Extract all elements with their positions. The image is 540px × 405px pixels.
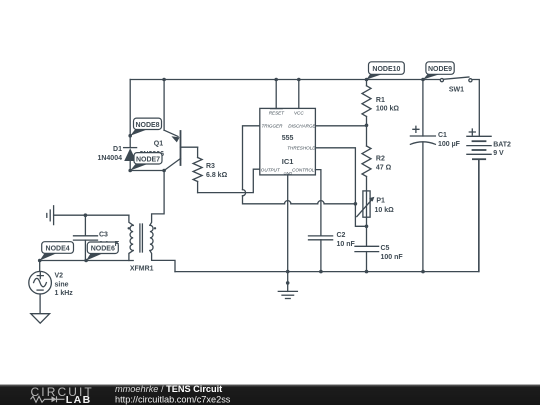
svg-text:100 µF: 100 µF	[438, 141, 461, 148]
footer author / title	[115, 384, 222, 394]
svg-text:R2: R2	[376, 156, 385, 163]
value 6.8 kohm	[206, 172, 228, 179]
label BAT2	[493, 142, 511, 149]
label C3	[99, 231, 108, 238]
svg-text:RESET: RESET	[269, 110, 286, 115]
label V2	[55, 273, 64, 280]
wire DISCHARGE to R1/R2 junction	[315, 125, 366, 127]
wire left branch down to D1	[129, 80, 131, 136]
node flag NODE9	[423, 62, 454, 80]
value 9 V	[493, 150, 504, 157]
wire THRESHOLD down to pot wiper net	[315, 148, 355, 204]
svg-text:NODE9: NODE9	[428, 66, 452, 73]
label C1	[438, 132, 447, 139]
label IC1	[282, 157, 294, 166]
svg-text:100 nF: 100 nF	[381, 254, 404, 261]
wire R3 bottom to OUTPUT	[198, 169, 260, 192]
transistor Q1	[164, 130, 198, 170]
svg-text:BAT2: BAT2	[493, 142, 511, 149]
svg-text:9 V: 9 V	[493, 150, 504, 157]
node junction NODE10 anchor	[365, 78, 369, 82]
footer logo LAB	[66, 394, 92, 405]
value C3 unit fragment F	[115, 241, 120, 248]
svg-text:TRIGGER: TRIGGER	[262, 124, 284, 129]
svg-text:100 kΩ: 100 kΩ	[376, 105, 400, 112]
switch SW1	[440, 77, 472, 82]
value sine	[55, 282, 69, 289]
resistor R1	[362, 80, 371, 126]
node junction Q1 collector	[162, 169, 166, 173]
node junction ground symbol stem	[286, 281, 290, 285]
svg-text:NODE6: NODE6	[91, 246, 115, 253]
value 0.1 uF (mostly hidden behind NODE6 flag)	[99, 241, 120, 248]
node junction C3 top	[84, 213, 88, 217]
node junction NODE6 anchor	[84, 259, 88, 263]
svg-text:VCC: VCC	[294, 110, 304, 115]
node flag NODE10	[367, 62, 405, 80]
svg-text:V2: V2	[55, 273, 64, 280]
label SW1	[449, 87, 464, 94]
capacitor C5	[355, 226, 379, 271]
label CONTROL pin	[292, 167, 315, 172]
value 2N3906 (hidden behind NODE7 flag)	[140, 151, 165, 158]
transformer XFMR1	[128, 171, 176, 272]
node junction top rail at Q1 emitter	[162, 78, 166, 82]
svg-text:XFMR1: XFMR1	[130, 265, 154, 272]
op-amp/IC U1 555 timer box	[260, 108, 316, 174]
label C5	[381, 245, 390, 252]
svg-text:F: F	[115, 241, 120, 248]
wire wiper net down to pot bottom	[355, 204, 366, 227]
node junction R1/R2/discharge	[365, 124, 369, 128]
node junction pot bottom	[365, 225, 369, 229]
node junction rail GND pin	[286, 270, 290, 274]
value 1N4004	[97, 155, 122, 162]
svg-text:1 kHz: 1 kHz	[55, 290, 74, 297]
wire V2 to XFMR primary bottom	[40, 260, 134, 262]
wire CONTROL down to C2	[315, 170, 321, 236]
label D1	[113, 146, 122, 153]
ground earth symbol bottom center	[278, 283, 297, 299]
node junction NODE4 anchor / V2 top	[38, 259, 42, 263]
node flag NODE8	[130, 118, 161, 136]
svg-text:OUTPUT: OUTPUT	[261, 167, 281, 172]
footer logo CIRCUIT	[31, 385, 94, 399]
wire top-left ground to XFMR primary top	[54, 214, 129, 216]
label VCC	[294, 110, 304, 115]
footer url	[115, 394, 231, 404]
capacitor C2	[309, 236, 333, 272]
source V2 sine	[29, 261, 52, 314]
node junction NODE9 anchor	[421, 78, 425, 82]
resistor R3	[193, 147, 202, 192]
value 100 kohm	[376, 105, 400, 112]
ground earth symbol top left (rotated)	[47, 206, 54, 225]
capacitor C1 polarized	[410, 80, 435, 272]
svg-text:47 Ω: 47 Ω	[376, 165, 392, 172]
label XFMR1	[130, 265, 154, 272]
svg-text:1N4004: 1N4004	[97, 155, 122, 162]
svg-text:NODE10: NODE10	[372, 66, 400, 73]
node junction top rail RESET pin	[274, 78, 278, 82]
label DISCHARGE pin	[288, 124, 316, 129]
node flag NODE4	[40, 242, 74, 261]
pin VCC	[298, 80, 300, 109]
label GND pin	[284, 170, 293, 175]
diode D1	[124, 136, 137, 171]
footer bar	[0, 385, 540, 405]
label Q1	[154, 141, 163, 148]
label TRIGGER pin	[262, 124, 284, 129]
svg-text:NODE4: NODE4	[46, 246, 70, 253]
node junction top rail VCC pin	[297, 78, 301, 82]
svg-text:555: 555	[282, 135, 294, 142]
label OUTPUT pin	[261, 167, 281, 172]
svg-text:R1: R1	[376, 97, 385, 104]
label 555	[282, 135, 294, 142]
svg-text:C3: C3	[99, 231, 108, 238]
node junction D1 bottom / NODE7 anchor	[128, 169, 132, 173]
svg-text:mmoehrke / TENS Circuit: mmoehrke / TENS Circuit	[115, 384, 222, 394]
svg-text:C1: C1	[438, 132, 447, 139]
svg-text:NODE7: NODE7	[136, 156, 160, 163]
value 47 ohm	[376, 165, 392, 172]
node flag NODE7	[130, 153, 162, 171]
svg-text:6.8 kΩ: 6.8 kΩ	[206, 172, 228, 179]
node junction D1 top / NODE8 anchor	[128, 134, 132, 138]
node junction rail C1	[421, 270, 425, 274]
resistor R2	[362, 125, 371, 191]
svg-text:P1: P1	[376, 198, 385, 205]
value 100 uF	[438, 141, 461, 148]
label P1	[376, 198, 385, 205]
svg-text:Q1: Q1	[154, 141, 163, 148]
value 1 kHz	[55, 290, 74, 297]
value 100 nF	[381, 254, 404, 261]
wire TRIGGER net with hop over output wire	[243, 126, 356, 204]
ground chassis symbol under V2	[31, 314, 50, 324]
svg-text:D1: D1	[113, 146, 122, 153]
pin RESET	[275, 80, 277, 109]
svg-text:DISCHARGE: DISCHARGE	[288, 124, 316, 129]
wire Q1 emitter vertical	[163, 80, 165, 131]
svg-text:CONTROL: CONTROL	[292, 167, 315, 172]
wire top rail	[130, 80, 479, 137]
svg-text:sine: sine	[55, 282, 69, 289]
potentiometer P1	[357, 191, 375, 226]
label C2	[337, 232, 346, 239]
node flag NODE6	[86, 242, 118, 261]
svg-text:10 nF: 10 nF	[337, 241, 356, 248]
svg-text:LAB: LAB	[66, 394, 92, 405]
footer logo squiggle and diode	[31, 396, 65, 402]
svg-text:SW1: SW1	[449, 87, 464, 94]
label R2	[376, 156, 385, 163]
value 10 nF	[337, 241, 356, 248]
svg-text:NODE8: NODE8	[135, 122, 159, 129]
capacitor C3	[74, 215, 98, 260]
svg-text:10 kΩ: 10 kΩ	[375, 207, 395, 214]
svg-text:R3: R3	[206, 163, 215, 170]
node junction rail C5	[365, 270, 369, 274]
battery BAT2	[467, 129, 491, 272]
svg-text:IC1: IC1	[282, 157, 294, 166]
label R3	[206, 163, 215, 170]
svg-text:http://circuitlab.com/c7xe2ss: http://circuitlab.com/c7xe2ss	[115, 394, 231, 404]
wire bottom ground rail	[175, 159, 479, 271]
node junction rail C2	[319, 270, 323, 274]
label RESET	[269, 109, 286, 115]
wire D1 bottom to Q1 collector	[130, 170, 164, 172]
svg-text:C5: C5	[381, 245, 390, 252]
label THRESHOLD pin	[287, 146, 316, 151]
node junction threshold/trigger/wiper	[354, 202, 358, 206]
svg-text:C2: C2	[337, 232, 346, 239]
svg-text:THRESHOLD: THRESHOLD	[287, 146, 316, 151]
value 10 kohm	[375, 207, 395, 214]
label R1	[376, 97, 385, 104]
wire GND pin down	[287, 175, 289, 283]
